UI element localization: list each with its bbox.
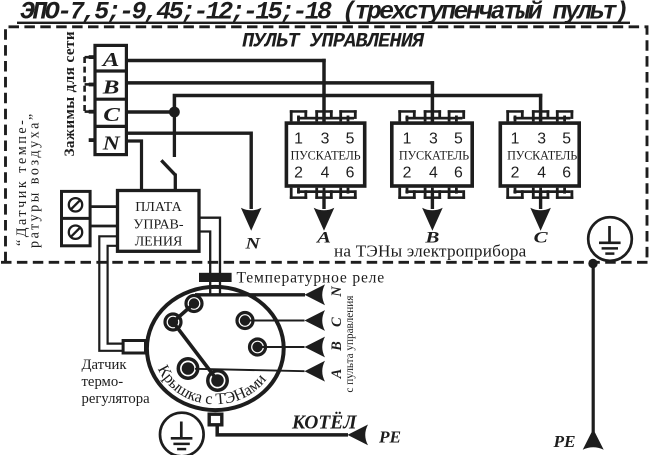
label Датчик терморегулятора — [82, 357, 151, 407]
wire jumper t2-t6 — [173, 322, 218, 381]
starter 2 bottom clamp terminals — [398, 188, 415, 199]
svg-text:6: 6 — [346, 164, 355, 181]
starter 2 bottom jumper bar — [405, 190, 462, 193]
terminal t6 — [208, 371, 227, 390]
starter 1 — [286, 110, 364, 199]
flag to N (left) — [305, 284, 326, 305]
wire B drop to starter 2 — [431, 81, 435, 122]
starter 1 bottom clamp terminals — [290, 188, 307, 199]
wire N line in boiler — [195, 293, 305, 296]
curved label Крышка с ТЭНами — [158, 358, 276, 404]
PE earth circle (top right) — [588, 217, 632, 261]
terminal letters — [100, 49, 121, 155]
svg-text:термо-: термо- — [82, 374, 124, 390]
svg-text:ПУСКАТЕЛЬ: ПУСКАТЕЛЬ — [399, 149, 469, 163]
wire board to thermostat sensor (second) — [108, 246, 123, 344]
wire starter3 output — [539, 192, 542, 209]
switch blade — [161, 160, 175, 175]
svg-text:PE: PE — [553, 432, 576, 451]
wire phase C from cell to junction — [126, 110, 174, 114]
svg-text:PE: PE — [378, 428, 401, 447]
starter 1 bottom jumper bar — [297, 190, 354, 193]
thermostat sensor box — [123, 341, 145, 354]
svg-text:4: 4 — [537, 164, 546, 181]
terminal stack A B C N — [95, 45, 126, 154]
wire boiler to PE flag — [217, 427, 348, 435]
svg-text:6: 6 — [562, 164, 571, 181]
svg-text:с пульта управления: с пульта управления — [344, 296, 356, 393]
switch to control board — [174, 174, 177, 191]
flag B down arrow — [422, 208, 443, 231]
left stubs on cells — [89, 55, 96, 142]
svg-text:N: N — [102, 133, 122, 155]
wire phase B bus — [126, 81, 434, 85]
starter 2 top clamp terminals — [398, 110, 415, 121]
screw terminal block (sensor terminals) — [62, 191, 91, 245]
starter 2 top jumper bar — [405, 117, 462, 120]
wire t5 to A flag — [195, 369, 305, 371]
temperature relay black box — [199, 273, 232, 282]
svg-text:2: 2 — [403, 164, 412, 181]
wire C down to switch — [173, 112, 176, 157]
flag N down arrow — [241, 208, 262, 231]
wire phase A bus — [126, 59, 325, 63]
junction dot on dashed line — [588, 259, 597, 268]
svg-text:ПУЛЬТ УПРАВЛЕНИЯ: ПУЛЬТ УПРАВЛЕНИЯ — [242, 31, 425, 54]
dashed cable bracket — [85, 57, 93, 112]
svg-text:5: 5 — [454, 131, 463, 148]
screw symbol 1 — [69, 198, 82, 211]
flag PE left arrow — [348, 425, 369, 446]
labels N C B A (rotated) at flags — [329, 286, 345, 380]
svg-text:5: 5 — [562, 131, 571, 148]
svg-text:4: 4 — [321, 164, 330, 181]
svg-text:С: С — [534, 230, 548, 247]
boiler cover ellipse — [147, 287, 284, 410]
wire PE down — [592, 264, 595, 433]
starter 3 top jumper bar — [513, 117, 570, 120]
label ПЛАТА УПРАВЛЕНИЯ — [133, 200, 183, 250]
svg-text:C: C — [329, 317, 345, 327]
wire terminal1 to board — [90, 205, 117, 208]
boiler earth circle (bottom left) — [160, 413, 204, 455]
junction dot C — [169, 107, 180, 118]
svg-text:3: 3 — [429, 131, 438, 148]
svg-text:3: 3 — [537, 131, 546, 148]
svg-text:4: 4 — [429, 164, 438, 181]
terminal t1 — [186, 296, 202, 312]
wire starter1 output — [322, 192, 325, 209]
wire t3 to C flag — [245, 320, 305, 322]
svg-text:N: N — [329, 286, 345, 298]
terminal t5 — [178, 359, 197, 378]
boiler terminal square — [209, 414, 222, 425]
wire board to relay (right upper) — [199, 218, 220, 295]
wire C riser and bus — [174, 96, 542, 113]
svg-text:В: В — [102, 76, 120, 98]
control board box ПЛАТА УПРАВЛЕНИЯ — [118, 191, 200, 252]
wire t4 to B flag — [258, 346, 305, 348]
terminal t2 — [165, 314, 181, 330]
svg-text:ЛЕНИЯ: ЛЕНИЯ — [135, 235, 183, 250]
svg-text:А: А — [329, 368, 345, 379]
flag A down arrow — [314, 208, 335, 231]
wire link t1-t2 — [173, 304, 194, 323]
svg-text:2: 2 — [511, 164, 520, 181]
starter 3 bottom jumper bar — [513, 190, 570, 193]
svg-text:УПРАВ-: УПРАВ- — [133, 218, 183, 233]
svg-text:КОТЁЛ: КОТЁЛ — [291, 413, 357, 434]
svg-text:ПЛАТА: ПЛАТА — [135, 200, 182, 215]
wire board to thermostat sensor (left pair) — [99, 236, 122, 350]
screw symbol 2 — [69, 226, 82, 239]
starter 1 top jumper bar — [297, 117, 354, 120]
wire C drop to starter 3 — [539, 94, 543, 122]
svg-text:1: 1 — [403, 131, 412, 148]
svg-text:2: 2 — [294, 164, 303, 181]
wire N to arrow — [126, 133, 251, 209]
starter 3 bottom clamp terminals — [506, 188, 523, 199]
svg-text:ПУСКАТЕЛЬ: ПУСКАТЕЛЬ — [507, 149, 577, 163]
title underline — [17, 22, 630, 24]
svg-text:А: А — [316, 230, 332, 247]
svg-text:1: 1 — [511, 131, 520, 148]
svg-text:N: N — [244, 236, 262, 253]
starter 3 top clamp terminals — [506, 110, 523, 121]
svg-text:А: А — [100, 49, 119, 71]
svg-text:Датчик: Датчик — [82, 357, 128, 373]
svg-text:ПУСКАТЕЛЬ: ПУСКАТЕЛЬ — [290, 149, 360, 163]
svg-text:Температурное реле: Температурное реле — [237, 269, 385, 286]
dashed border of control panel — [1, 27, 650, 262]
starter 2 — [392, 110, 472, 199]
flag C down arrow — [530, 208, 551, 231]
svg-text:на ТЭНы электроприбора: на ТЭНы электроприбора — [334, 242, 527, 261]
starter 3 — [500, 110, 579, 199]
vertical label "Датчик температуры воздуха" — [14, 111, 43, 248]
svg-text:6: 6 — [454, 164, 463, 181]
wire A drop to starter 1 — [322, 59, 326, 122]
svg-text:Зажимы для сети: Зажимы для сети — [61, 31, 78, 156]
wire starter2 output — [431, 192, 434, 209]
terminal t4 — [250, 339, 266, 355]
svg-text:ратуры воздуха”: ратуры воздуха” — [27, 111, 43, 248]
svg-text:1: 1 — [294, 131, 303, 148]
svg-text:5: 5 — [346, 131, 355, 148]
wire terminal2 to board — [90, 225, 117, 228]
wire board to relay (right lower) — [199, 232, 210, 296]
svg-text:B: B — [329, 341, 345, 352]
wire N to control board — [126, 141, 141, 191]
svg-text:регулятора: регулятора — [82, 391, 151, 407]
flag PE up arrow — [583, 429, 604, 450]
svg-text:С: С — [103, 104, 120, 126]
svg-text:3: 3 — [321, 131, 330, 148]
starter 1 top clamp terminals — [290, 110, 307, 121]
terminal t3 — [237, 313, 253, 329]
